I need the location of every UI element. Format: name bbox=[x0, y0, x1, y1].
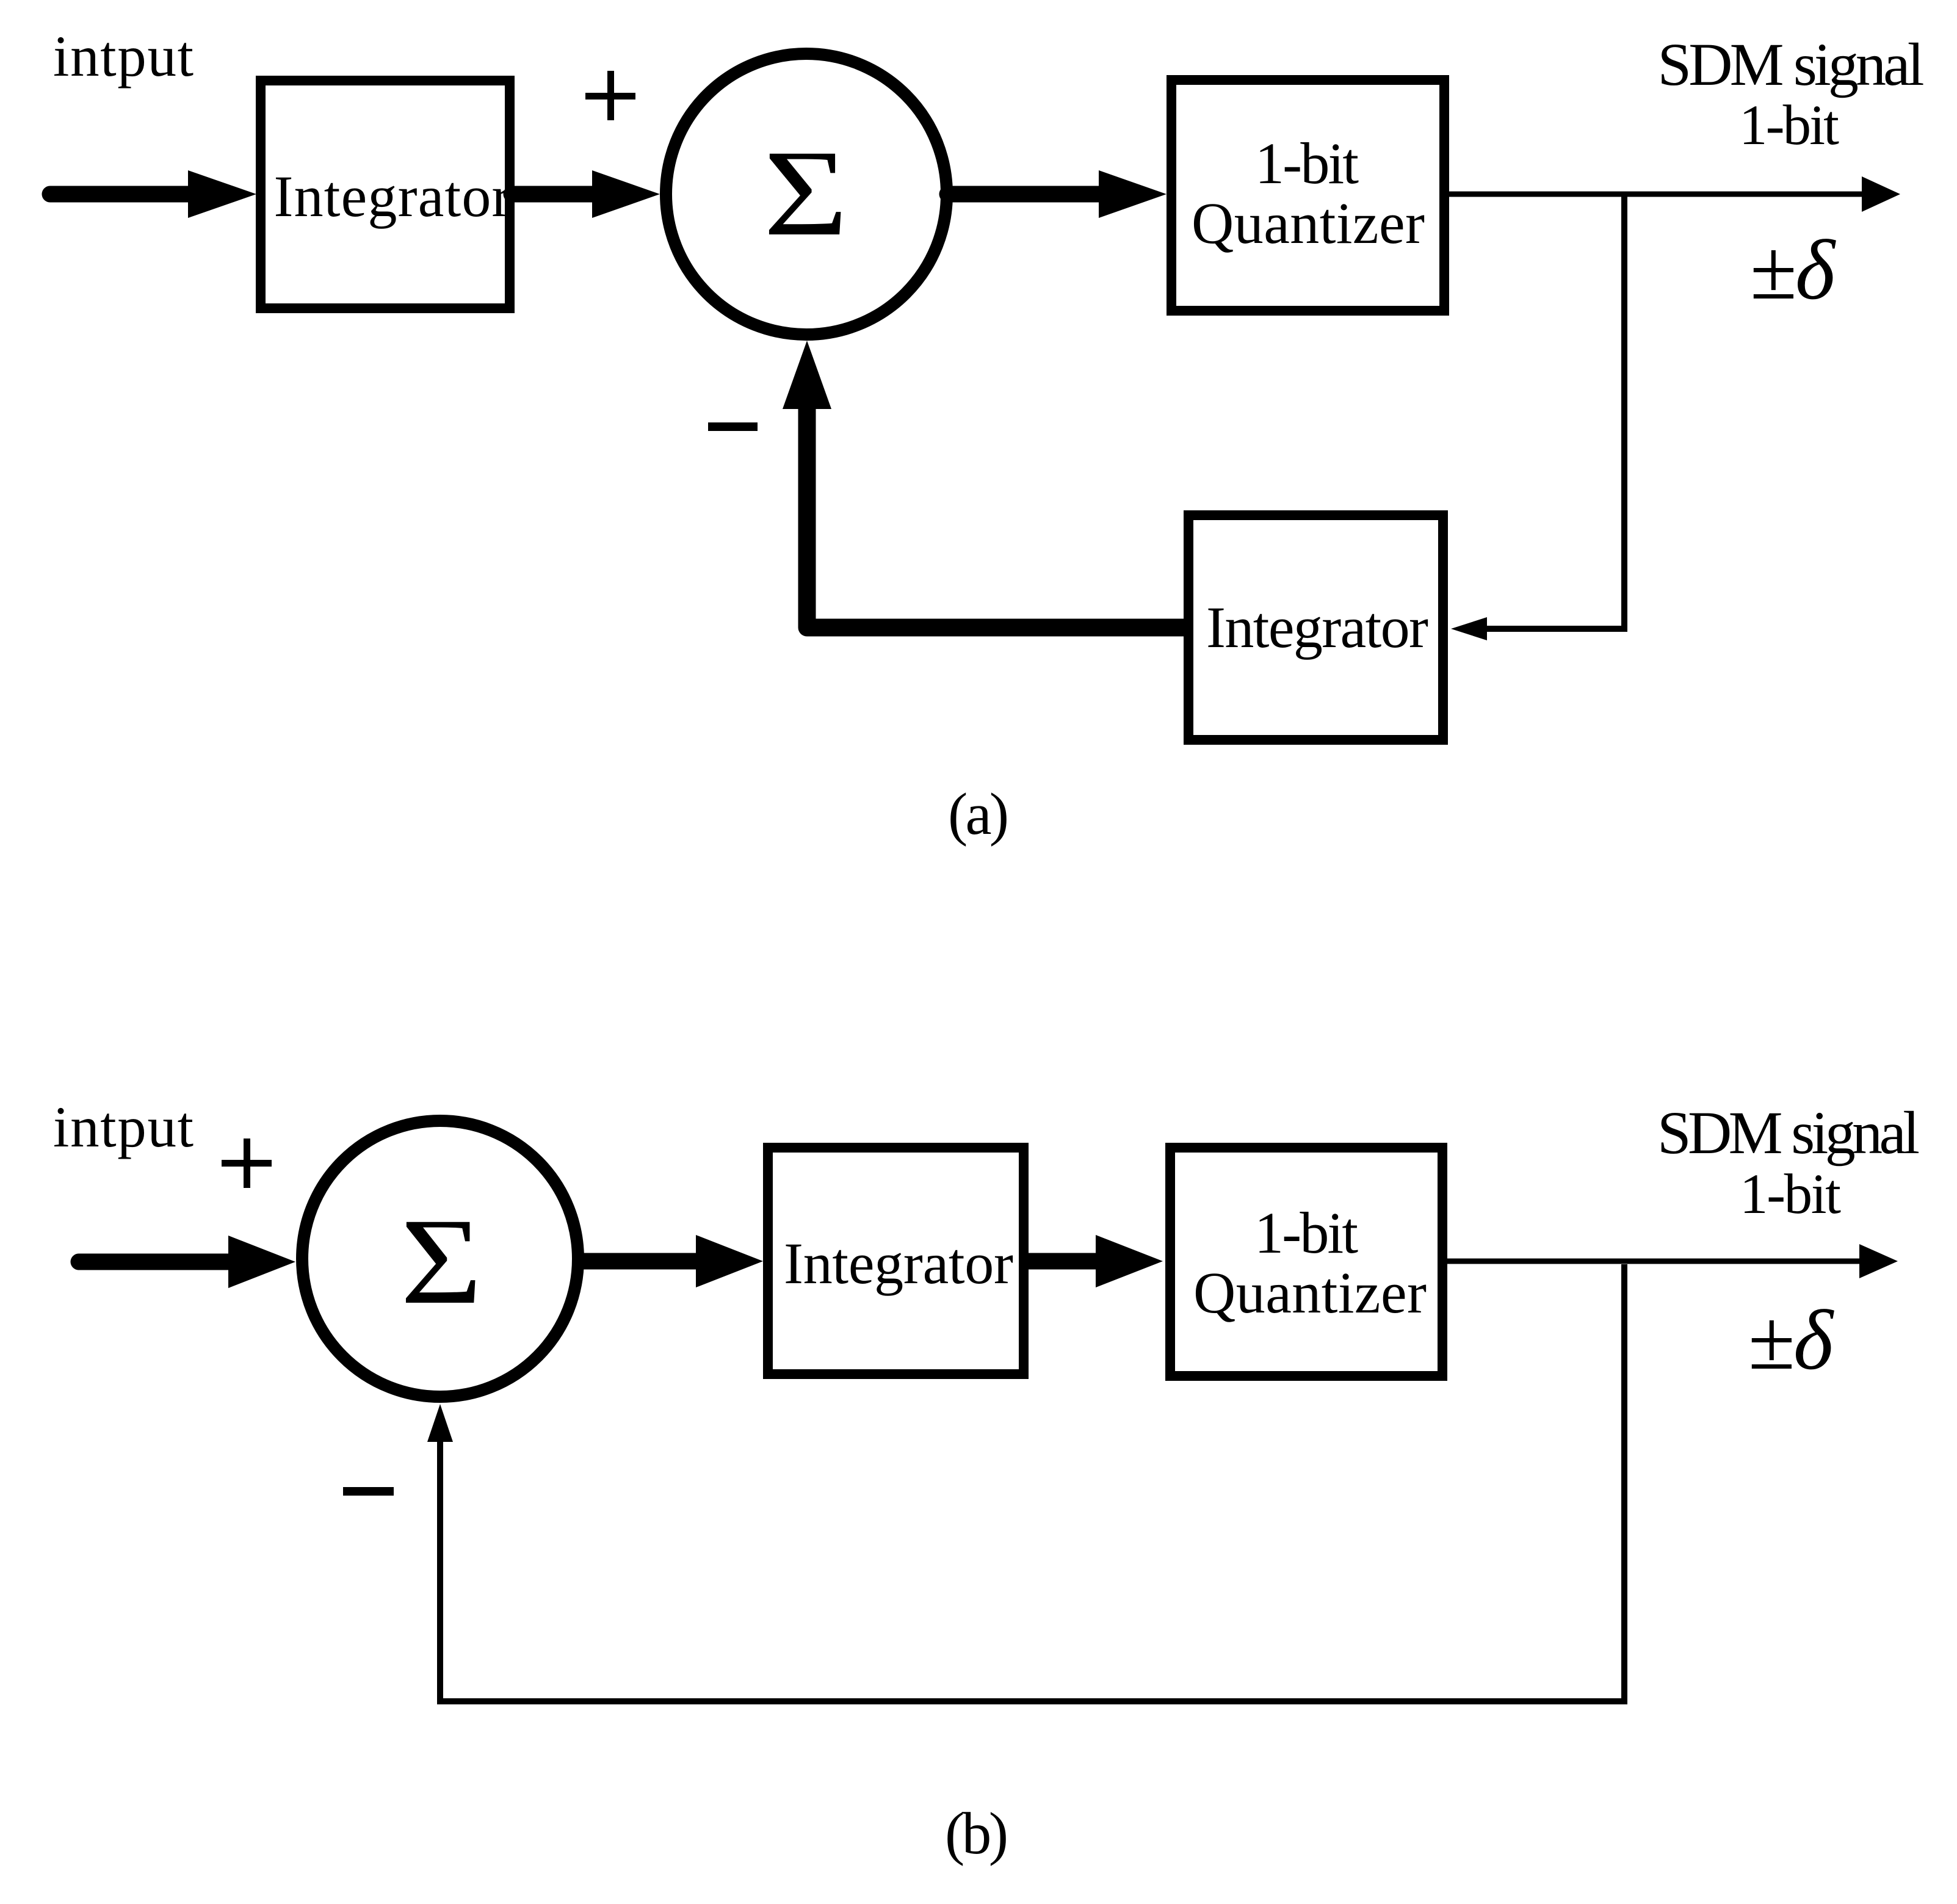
summing junction circle (b) bbox=[302, 1121, 578, 1397]
wire summer to integrator (b) bbox=[581, 1253, 699, 1270]
arrowhead output (b) bbox=[1859, 1244, 1898, 1278]
arrowhead to summer (a) bbox=[592, 170, 660, 218]
wire feedback path (b) bbox=[440, 1264, 1624, 1701]
arrowhead into feedback integrator (a) bbox=[1451, 617, 1487, 640]
svg-text:(b): (b) bbox=[945, 1801, 1008, 1866]
summing junction circle (a) bbox=[666, 54, 947, 335]
arrowhead into summer bottom (a) bbox=[783, 341, 831, 409]
block Integrator (b) bbox=[768, 1148, 1024, 1374]
wire input arrow shaft (a) bbox=[50, 186, 190, 203]
arrowhead input (a) bbox=[188, 170, 256, 218]
wire thick feedback to summer (a) bbox=[807, 405, 1191, 628]
arrowhead to quantizer (a) bbox=[1099, 170, 1167, 218]
svg-text:1-bit: 1-bit bbox=[1255, 131, 1359, 196]
svg-text:Quantizer: Quantizer bbox=[1192, 190, 1425, 256]
svg-text:±δ: ±δ bbox=[1750, 223, 1836, 317]
block feedback Integrator (a) bbox=[1188, 515, 1443, 740]
plus sign (b) bbox=[222, 1160, 272, 1167]
svg-text:1-bit: 1-bit bbox=[1739, 94, 1839, 157]
svg-text:intput: intput bbox=[53, 24, 194, 89]
svg-text:Integrator: Integrator bbox=[1206, 595, 1428, 660]
svg-text:Quantizer: Quantizer bbox=[1193, 1260, 1427, 1325]
wire feedback vertical (a) bbox=[1621, 194, 1627, 632]
svg-text:±δ: ±δ bbox=[1748, 1293, 1834, 1388]
plus sign (a) bbox=[585, 93, 635, 100]
svg-text:Integrator: Integrator bbox=[274, 164, 512, 229]
svg-text:Σ: Σ bbox=[764, 125, 848, 261]
svg-text:SDM signal: SDM signal bbox=[1657, 1099, 1920, 1167]
block 1-bit Quantizer (b) bbox=[1170, 1148, 1442, 1376]
svg-text:1-bit: 1-bit bbox=[1254, 1200, 1358, 1265]
svg-text:1-bit: 1-bit bbox=[1740, 1163, 1841, 1226]
wire output line (a) bbox=[1449, 192, 1863, 197]
wire integrator to summer (a) bbox=[512, 186, 595, 203]
arrowhead to quantizer (b) bbox=[1096, 1235, 1163, 1287]
svg-text:Σ: Σ bbox=[400, 1193, 482, 1330]
wire integrator to quantizer (b) bbox=[1029, 1253, 1098, 1270]
wire feedback into integrator (a) bbox=[1486, 626, 1627, 632]
wire output line (b) bbox=[1447, 1259, 1861, 1264]
block Integrator 1 (a) bbox=[261, 81, 510, 308]
minus sign (b) bbox=[343, 1487, 394, 1496]
svg-text:intput: intput bbox=[53, 1095, 194, 1159]
svg-text:(a): (a) bbox=[948, 781, 1009, 847]
svg-text:SDM signal: SDM signal bbox=[1658, 31, 1925, 98]
arrowhead input (b) bbox=[228, 1236, 295, 1288]
wire summer to quantizer (a) bbox=[947, 186, 1102, 203]
arrowhead output (a) bbox=[1862, 176, 1900, 212]
block 1-bit Quantizer (a) bbox=[1171, 80, 1444, 311]
arrowhead into summer bottom (b) bbox=[427, 1404, 453, 1442]
wire input arrow shaft (b) bbox=[79, 1254, 232, 1270]
svg-text:Integrator: Integrator bbox=[784, 1231, 1013, 1296]
arrowhead to integrator (b) bbox=[696, 1235, 763, 1287]
minus sign (a) bbox=[708, 422, 758, 431]
